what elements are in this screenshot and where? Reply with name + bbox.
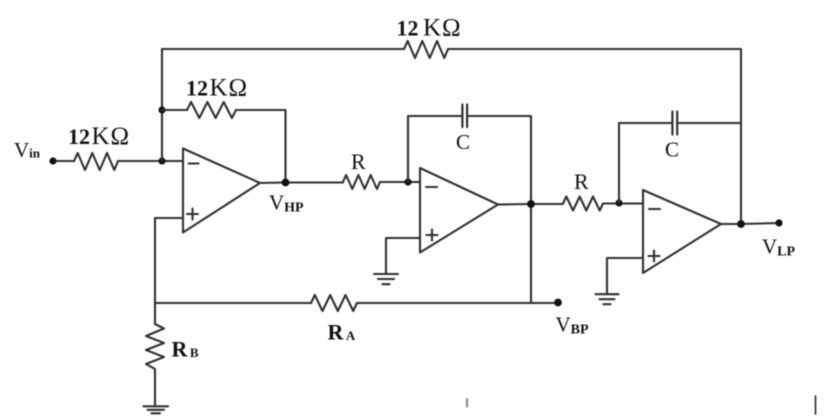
wire bottom rail right segment to VBP <box>357 302 558 304</box>
resistor RA <box>311 295 357 311</box>
svg-text:VLP: VLP <box>762 235 796 260</box>
svg-text:VHP: VHP <box>269 191 304 216</box>
resistor 12KΩ (input) <box>74 153 118 170</box>
op-amp U1 minus sign <box>189 162 199 164</box>
wire op1 noninverting input <box>155 218 183 303</box>
wire op1 output to R <box>260 181 343 184</box>
wire Vin to R input <box>56 160 74 162</box>
wire cap C1 left branch <box>408 116 461 182</box>
svg-text:VBP: VBP <box>556 313 590 338</box>
resistor R (input of integrator U3) <box>563 197 603 211</box>
tick mark black (bottom right) <box>815 396 817 414</box>
node Vin input terminal <box>49 157 56 164</box>
op-amp U1 <box>183 149 260 233</box>
tick mark gray (bottom centre) <box>466 399 468 407</box>
ground (op2) <box>374 274 398 284</box>
svg-text:RB: RB <box>172 337 199 362</box>
node VHP (op1 output) <box>282 179 290 187</box>
op-amp U3 minus sign <box>649 208 660 210</box>
wire node to RB <box>154 303 156 324</box>
node VLP terminal <box>775 219 782 226</box>
svg-text:Vin: Vin <box>14 138 41 162</box>
op-amp U3 plus sign <box>649 251 660 262</box>
resistor R (input of integrator U2) <box>343 175 380 189</box>
op-amp U1 plus sign <box>187 209 198 220</box>
wire top rail right segment and right vertical down to op3 output <box>448 49 741 224</box>
svg-text:12KΩ: 12KΩ <box>68 123 130 150</box>
resistor 12 KΩ (global feedback, top) <box>404 41 448 58</box>
svg-text:C: C <box>456 130 470 154</box>
node C2 junction (op3 inverting input) <box>615 199 622 206</box>
wire op2 noninverting input <box>386 238 420 274</box>
node A (op1 inverting input junction) <box>158 157 165 164</box>
wire op3 noninverting input <box>607 258 643 294</box>
svg-text:C: C <box>665 138 679 162</box>
svg-text:R: R <box>574 169 589 194</box>
wire cap C2 left branch <box>619 123 671 203</box>
wire R to op2 inverting input <box>380 181 420 183</box>
wire cap C1 right branch down to bottom rail <box>468 116 531 303</box>
wire op2 output to R2 <box>498 203 563 206</box>
op-amp U2 plus sign <box>427 230 438 241</box>
node C1 junction (op2 inverting input) <box>404 178 411 185</box>
wire op3 output to VLP terminal <box>721 223 779 224</box>
wire bottom rail left segment <box>155 302 311 304</box>
wire cap C2 right branch to right vertical <box>678 122 741 124</box>
wire R to node A <box>118 160 183 162</box>
svg-text:12KΩ: 12KΩ <box>397 15 462 42</box>
resistor 12KΩ (op1 feedback) <box>187 102 236 118</box>
op-amp U2 minus sign <box>426 186 437 188</box>
svg-text:R: R <box>351 149 366 174</box>
node op3 output <box>737 220 745 228</box>
node VBP terminal <box>554 299 562 307</box>
wire node B to feedback resistor <box>162 109 187 111</box>
svg-text:12KΩ: 12KΩ <box>186 75 248 102</box>
wire top rail left segment <box>162 48 404 50</box>
op-amp U3 <box>643 190 721 273</box>
wire feedback resistor to op1 output <box>236 110 286 183</box>
wire node A up to node B and top rail <box>161 49 163 161</box>
resistor RB (vertical) <box>146 324 164 369</box>
node B (feedback junction) <box>158 106 165 113</box>
svg-text:RA: RA <box>328 320 356 345</box>
op-amp U2 <box>420 168 498 253</box>
node op2 output <box>527 200 535 208</box>
ground (op3) <box>596 294 619 304</box>
ground (RB) <box>144 406 169 413</box>
wire RB to ground <box>154 370 156 406</box>
wire R2 to op3 inverting input <box>603 202 643 204</box>
capacitor C1 <box>462 105 467 128</box>
capacitor C2 <box>672 112 677 135</box>
